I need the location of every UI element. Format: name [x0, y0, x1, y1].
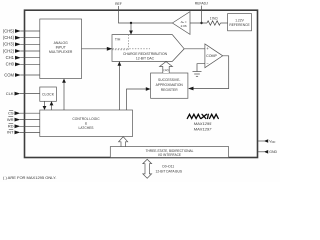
svg-text:(CH3): (CH3)	[3, 42, 15, 47]
pin COM	[21, 74, 41, 76]
pin CH0	[21, 63, 41, 65]
pin (CH3)	[21, 43, 41, 45]
wire comparator output to SAR	[193, 56, 229, 89]
wire sampled input (dashed)	[113, 48, 151, 50]
oscillator CLOCK	[40, 87, 57, 101]
bus SAR to DAC (12) hollow arrow	[160, 62, 173, 73]
svg-text:REGISTER: REGISTER	[161, 88, 178, 92]
pin WR	[20, 119, 40, 121]
svg-text:CLOCK: CLOCK	[42, 92, 55, 96]
svg-text:(CH2): (CH2)	[3, 48, 15, 53]
svg-text:COMP: COMP	[206, 54, 217, 58]
svg-text:CS: CS	[8, 111, 14, 116]
svg-text:REFADJ: REFADJ	[195, 2, 208, 6]
wire resistor to reference	[221, 22, 228, 24]
control logic and latches	[40, 110, 133, 137]
bus control to I/O interface (hollow up arrow)	[119, 137, 128, 147]
wire DAC output to comparator	[184, 48, 205, 50]
pin INT	[20, 131, 40, 133]
wire REFADJ down	[201, 6, 203, 23]
op-amp buffer AV=2.06	[172, 12, 190, 35]
resistor 17k	[207, 21, 220, 25]
svg-text:APPROXIMATION: APPROXIMATION	[156, 83, 184, 87]
pin CH1	[21, 57, 41, 59]
svg-text:GND: GND	[269, 150, 277, 154]
node REF junction	[130, 22, 132, 24]
pin (CH2)	[21, 50, 41, 52]
pin RD	[20, 125, 40, 127]
wire control to mux (up arrow)	[63, 82, 65, 110]
svg-text:ANALOG: ANALOG	[54, 41, 68, 45]
wire control to SAR	[127, 89, 147, 110]
svg-text:MAX1297: MAX1297	[194, 126, 212, 131]
svg-text:( ) ARE FOR MAX1295 ONLY.: ( ) ARE FOR MAX1295 ONLY.	[3, 175, 56, 180]
svg-text:SUCCESSIVE-: SUCCESSIVE-	[158, 78, 180, 82]
svg-text:T/H: T/H	[115, 38, 121, 42]
svg-text:CLK: CLK	[6, 91, 14, 96]
analog input multiplexer U-mux	[40, 19, 82, 79]
comparator COMP	[205, 44, 223, 68]
svg-text:REFERENCE: REFERENCE	[229, 23, 250, 27]
svg-text:(CH5): (CH5)	[3, 28, 15, 33]
wire amp input from resistor	[190, 22, 207, 24]
three-state bidirectional I/O interface	[110, 147, 228, 158]
charge redistribution 12-bit DAC	[112, 35, 184, 62]
svg-text:MULTIPLEXER: MULTIPLEXER	[49, 50, 73, 54]
wire REF down to reference net	[119, 6, 173, 23]
wire control to DAC (up arrow)	[118, 65, 120, 110]
wire control to clock (up)	[51, 105, 53, 110]
pin VDD	[258, 140, 265, 142]
pin CLK	[20, 93, 40, 95]
chip outline MAX1295/MAX1297	[25, 10, 258, 157]
svg-text:17kΩ: 17kΩ	[210, 16, 218, 20]
pin (CH4)	[21, 37, 41, 39]
svg-text:MAX1295: MAX1295	[194, 121, 212, 126]
svg-text:(CH4): (CH4)	[3, 35, 15, 40]
pin CS	[20, 112, 40, 114]
node REFADJ junction	[200, 22, 202, 24]
svg-text:COM: COM	[4, 72, 14, 77]
svg-text:2.06: 2.06	[181, 24, 187, 28]
svg-text:CONTROL LOGIC: CONTROL LOGIC	[72, 117, 100, 121]
track/hold T/H (dashed box)	[127, 35, 129, 50]
svg-text:CH1: CH1	[6, 55, 15, 60]
pin (CH5)	[21, 30, 41, 32]
wire comparator inverting input	[197, 64, 205, 72]
svg-text:(12): (12)	[163, 68, 168, 72]
svg-text:INT: INT	[7, 130, 14, 135]
svg-text:REF: REF	[115, 2, 122, 6]
ground	[193, 72, 202, 77]
successive-approximation register	[151, 73, 188, 98]
svg-text:WR: WR	[7, 117, 14, 122]
svg-text:12-BIT DAC: 12-BIT DAC	[136, 56, 155, 60]
svg-text:RD: RD	[8, 124, 14, 129]
svg-text:I/O INTERFACE: I/O INTERFACE	[158, 153, 181, 157]
pin GND	[258, 151, 265, 153]
svg-text:12-BIT DATA BUS: 12-BIT DATA BUS	[156, 170, 183, 174]
svg-text:CH0: CH0	[6, 62, 15, 67]
svg-text:LATCHES: LATCHES	[79, 126, 95, 130]
bus D0-D11 (hollow double arrow)	[143, 159, 152, 178]
wire clock to control (down)	[44, 101, 46, 107]
svg-text:D0–D11: D0–D11	[162, 165, 174, 169]
wire mux to DAC	[82, 48, 108, 50]
MAXIM logo	[187, 114, 218, 118]
svg-text:1.22V: 1.22V	[235, 19, 244, 23]
1.22V bandgap reference	[228, 14, 252, 31]
wire REF branch into DAC	[130, 23, 132, 32]
svg-text:INPUT: INPUT	[56, 46, 66, 50]
